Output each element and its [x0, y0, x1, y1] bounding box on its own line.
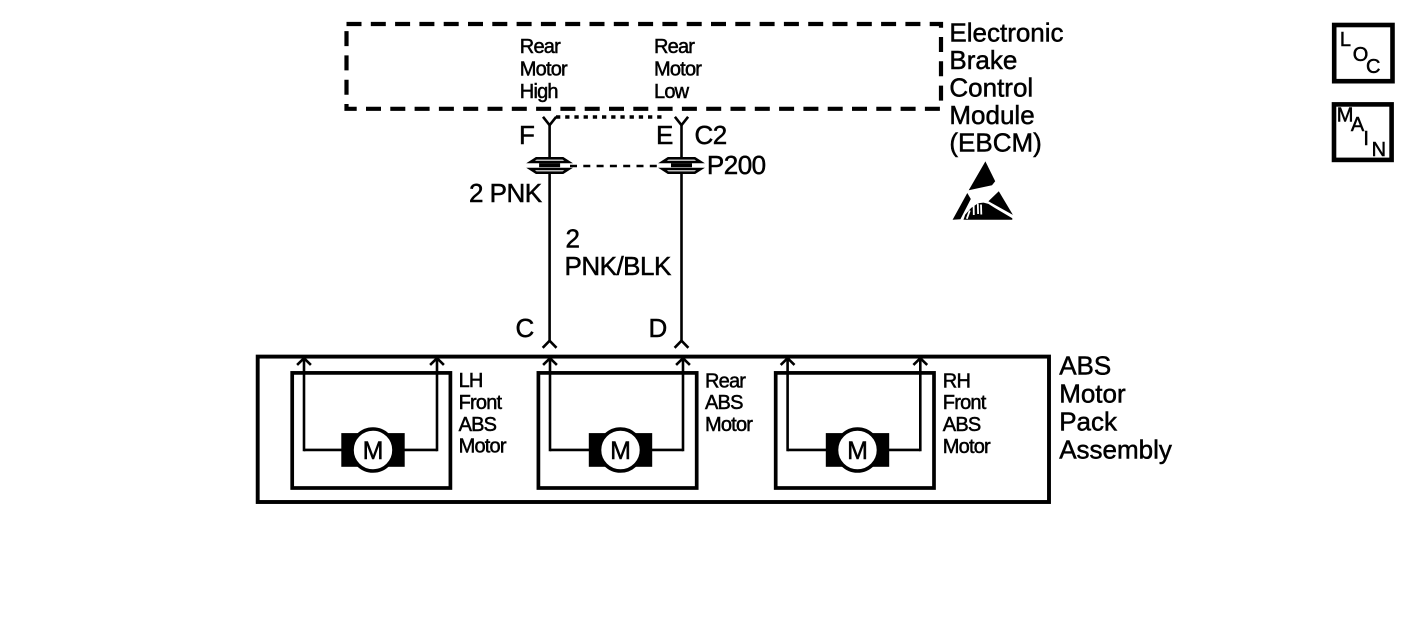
svg-text:Rear: Rear [654, 36, 695, 58]
svg-text:Motor: Motor [654, 59, 702, 81]
svg-text:RH: RH [943, 370, 970, 392]
svg-text:C: C [1366, 56, 1380, 78]
svg-text:LH: LH [459, 370, 483, 392]
svg-text:Motor: Motor [459, 436, 507, 458]
svg-text:ABS: ABS [1059, 351, 1111, 381]
svg-text:PNK/BLK: PNK/BLK [565, 251, 672, 281]
svg-text:ABS: ABS [459, 414, 497, 436]
svg-text:Front: Front [459, 392, 503, 414]
svg-text:Front: Front [943, 392, 987, 414]
svg-text:(EBCM): (EBCM) [949, 127, 1041, 157]
svg-text:ABS: ABS [705, 392, 743, 414]
svg-text:2: 2 [566, 224, 580, 254]
svg-text:N: N [1372, 139, 1386, 161]
svg-text:Electronic: Electronic [949, 17, 1063, 47]
svg-text:C: C [516, 313, 534, 343]
svg-text:F: F [519, 120, 534, 150]
svg-text:Low: Low [654, 81, 690, 103]
svg-text:ABS: ABS [943, 414, 981, 436]
svg-text:P200: P200 [707, 150, 766, 180]
svg-text:Motor: Motor [705, 414, 753, 436]
svg-text:Assembly: Assembly [1059, 434, 1172, 464]
svg-text:E: E [656, 120, 673, 150]
svg-text:Motor: Motor [943, 436, 991, 458]
svg-text:M: M [847, 437, 868, 465]
svg-text:I: I [1363, 128, 1369, 150]
svg-text:Rear: Rear [705, 370, 746, 392]
svg-text:High: High [520, 81, 558, 103]
svg-text:Control: Control [949, 72, 1033, 102]
svg-text:D: D [649, 313, 667, 343]
svg-text:2 PNK: 2 PNK [469, 178, 543, 208]
svg-text:C2: C2 [695, 120, 727, 150]
svg-text:Rear: Rear [520, 36, 561, 58]
svg-text:Motor: Motor [520, 59, 568, 81]
svg-text:Pack: Pack [1059, 406, 1118, 436]
svg-text:Motor: Motor [1059, 379, 1126, 409]
svg-text:L: L [1340, 29, 1351, 51]
svg-text:M: M [363, 437, 384, 465]
svg-text:Module: Module [949, 100, 1034, 130]
svg-text:Brake: Brake [949, 45, 1017, 75]
svg-text:M: M [610, 437, 631, 465]
